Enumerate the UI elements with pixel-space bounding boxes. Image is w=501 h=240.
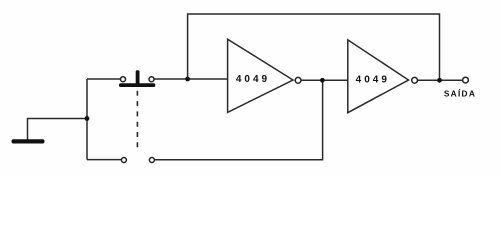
- wire left vertical: [86, 79, 88, 160]
- svg-text:4049: 4049: [236, 74, 270, 85]
- pushbutton S1 bottom contact left: [121, 158, 126, 163]
- pushbutton S1 stem: [136, 70, 140, 84]
- node junction between inverters: [320, 78, 325, 83]
- wire bottom rail left: [87, 159, 121, 161]
- node junction inverter1 input: [185, 77, 190, 82]
- wire touch plate to vertical: [28, 119, 88, 140]
- node junction at touch plate: [85, 116, 90, 121]
- wire inverter2 out to output terminal: [418, 79, 462, 81]
- svg-text:SAÍDA: SAÍDA: [444, 88, 476, 98]
- svg-text:4049: 4049: [356, 74, 390, 85]
- wire rail left to switch: [87, 78, 120, 80]
- inverter U1a triangle: [228, 39, 293, 112]
- pushbutton S1 top contact right: [149, 77, 154, 82]
- inverter U1b bubble: [412, 77, 418, 83]
- node junction inverter2 output: [437, 78, 442, 83]
- inverter U1b triangle: [348, 40, 409, 113]
- output terminal SAIDA: [463, 77, 469, 83]
- wire feedback top: [188, 14, 440, 80]
- pushbutton S1 top contact left: [121, 77, 126, 82]
- touch plate P1: [12, 139, 45, 143]
- pushbutton S1 mechanical link dashed: [136, 91, 138, 152]
- inverter U1a bubble: [295, 77, 301, 83]
- wire switch to inverter input: [154, 78, 227, 80]
- wire inverter1 out to inverter2 in: [301, 79, 348, 81]
- wire bottom rail right: [155, 82, 323, 160]
- pushbutton S1 actuator bar: [119, 83, 155, 87]
- pushbutton S1 bottom contact right: [149, 158, 154, 163]
